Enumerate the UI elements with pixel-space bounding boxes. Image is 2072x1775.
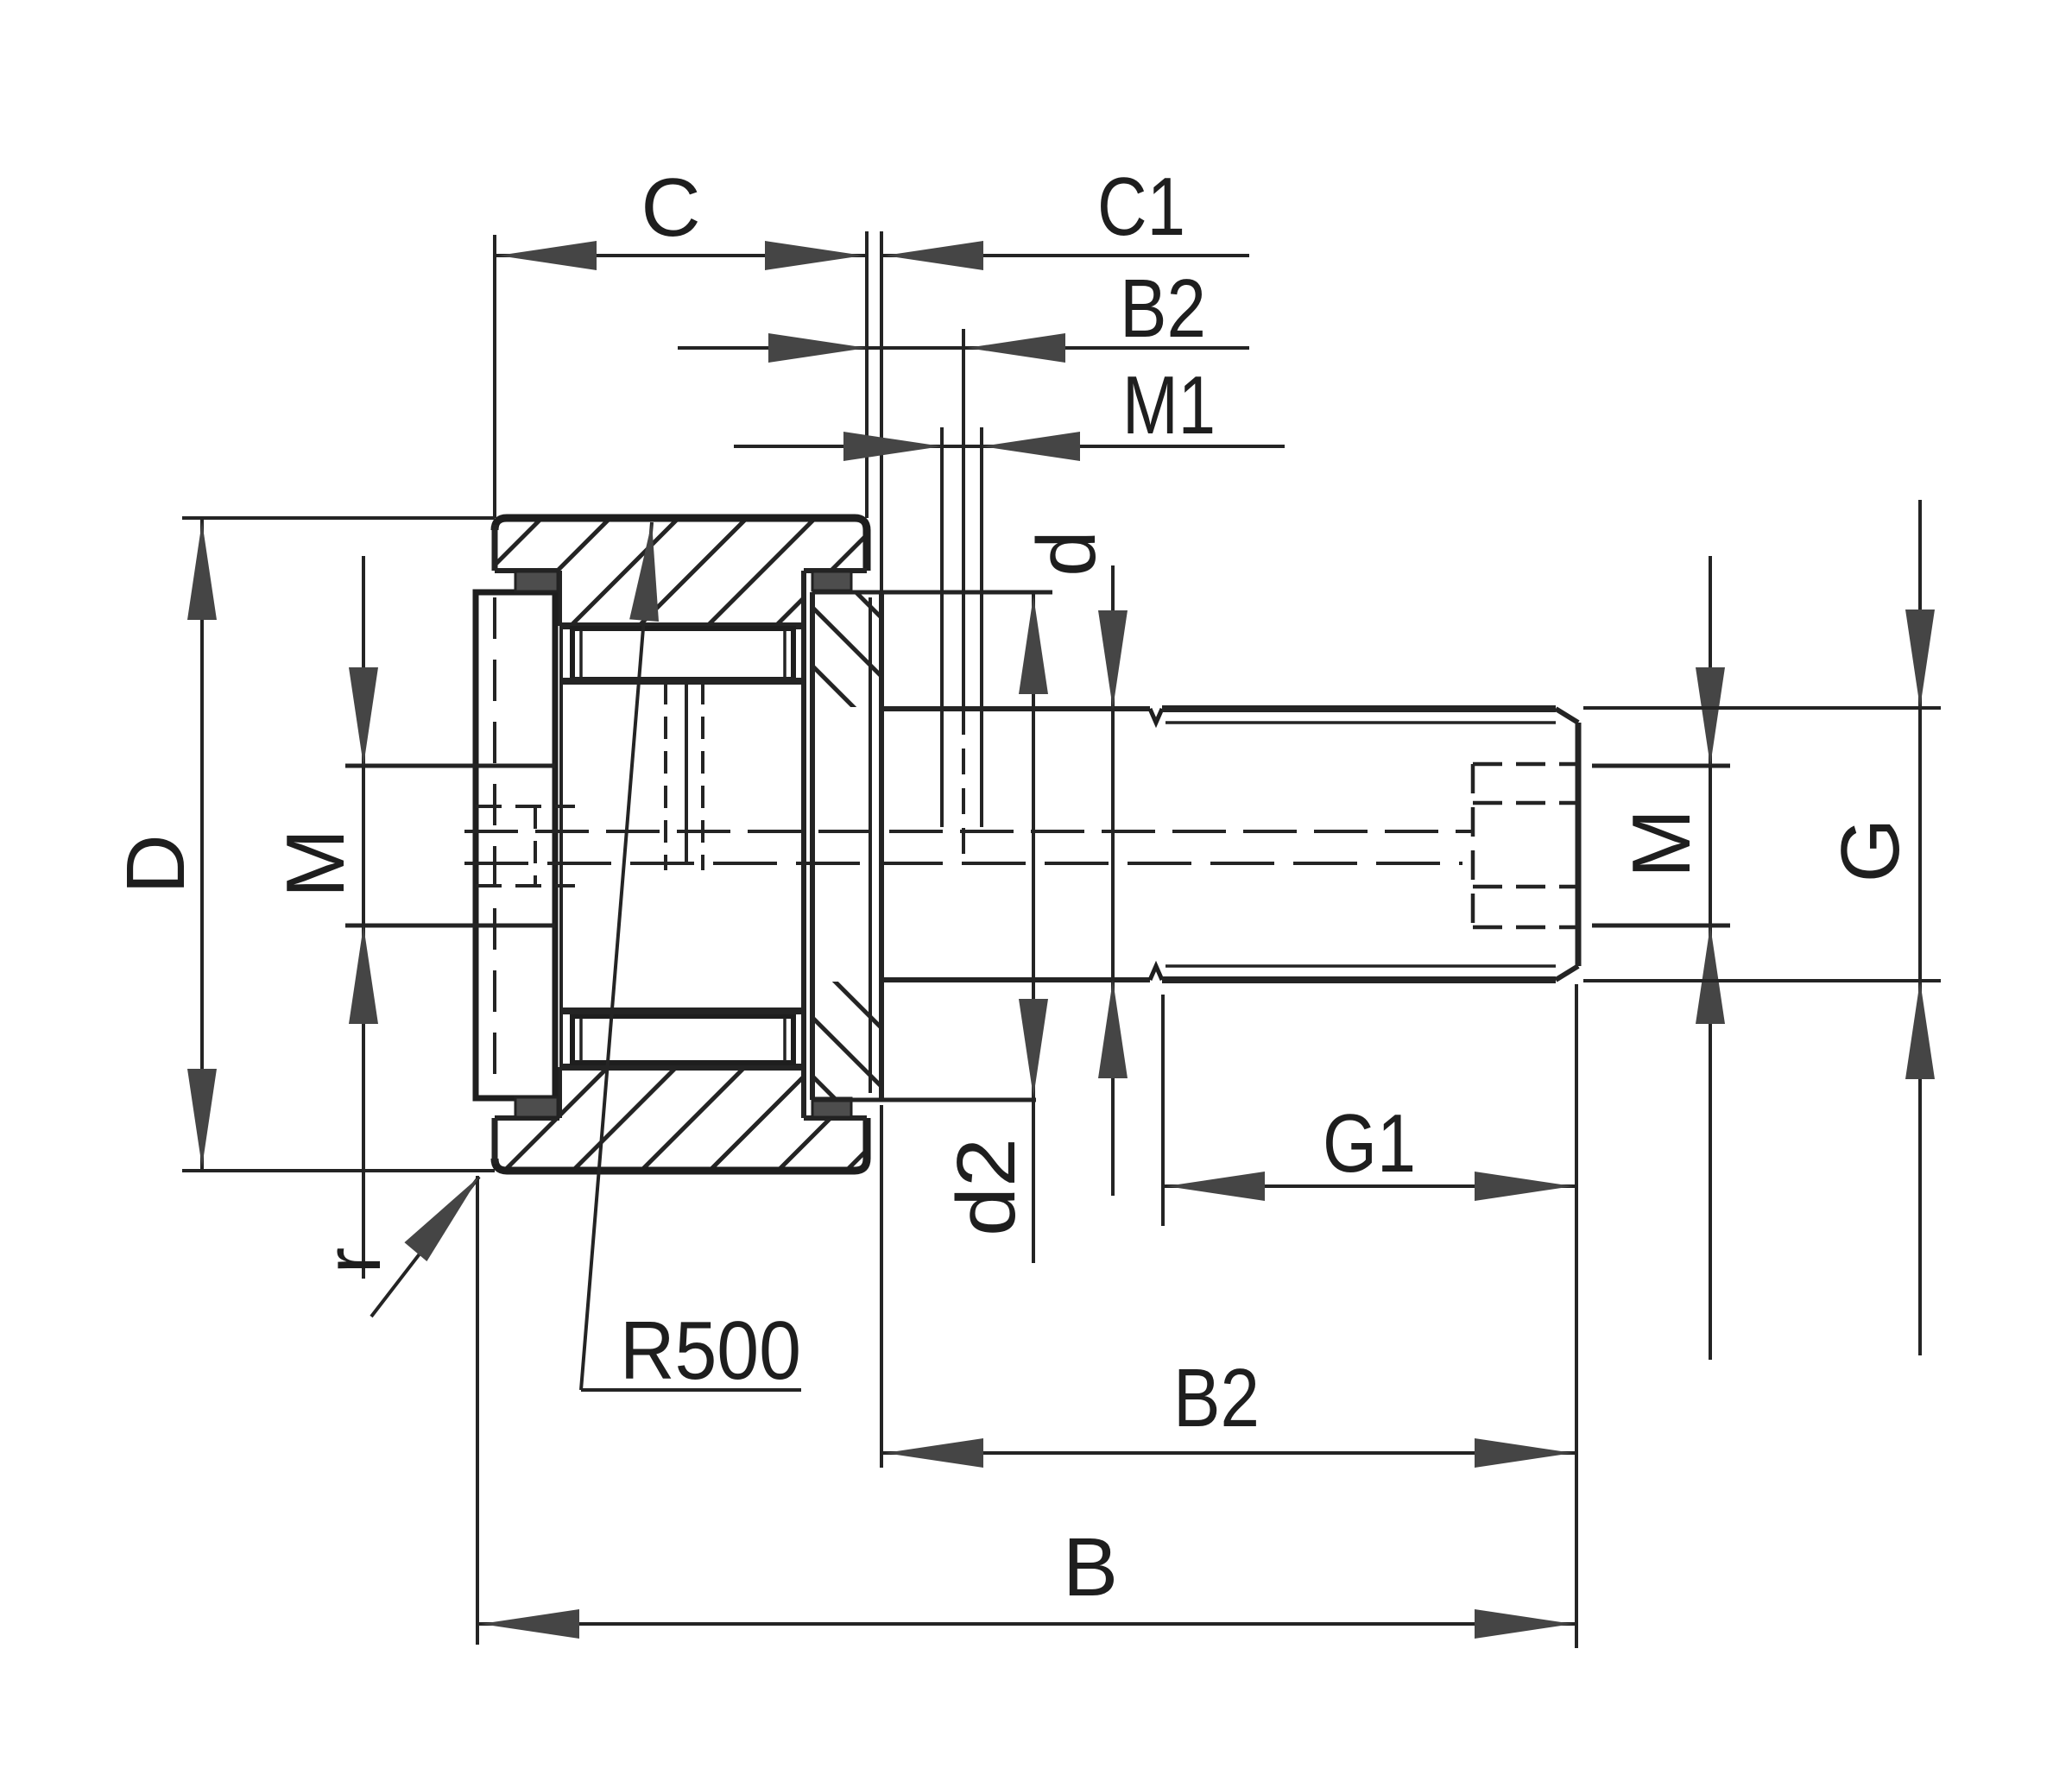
- svg-text:B2: B2: [1120, 262, 1206, 355]
- svg-text:M: M: [1615, 809, 1708, 878]
- svg-text:C: C: [641, 161, 700, 254]
- svg-text:C1: C1: [1097, 161, 1185, 253]
- svg-text:G: G: [1824, 818, 1917, 883]
- svg-text:R500: R500: [620, 1304, 801, 1397]
- svg-text:B2: B2: [1173, 1352, 1260, 1444]
- svg-text:d: d: [1020, 530, 1113, 576]
- svg-text:d2: d2: [940, 1138, 1033, 1236]
- svg-text:D: D: [110, 834, 202, 894]
- svg-text:B: B: [1063, 1521, 1118, 1614]
- svg-text:r: r: [309, 1248, 397, 1274]
- svg-text:M: M: [269, 829, 362, 898]
- svg-text:G1: G1: [1323, 1097, 1416, 1190]
- svg-text:M1: M1: [1122, 359, 1216, 452]
